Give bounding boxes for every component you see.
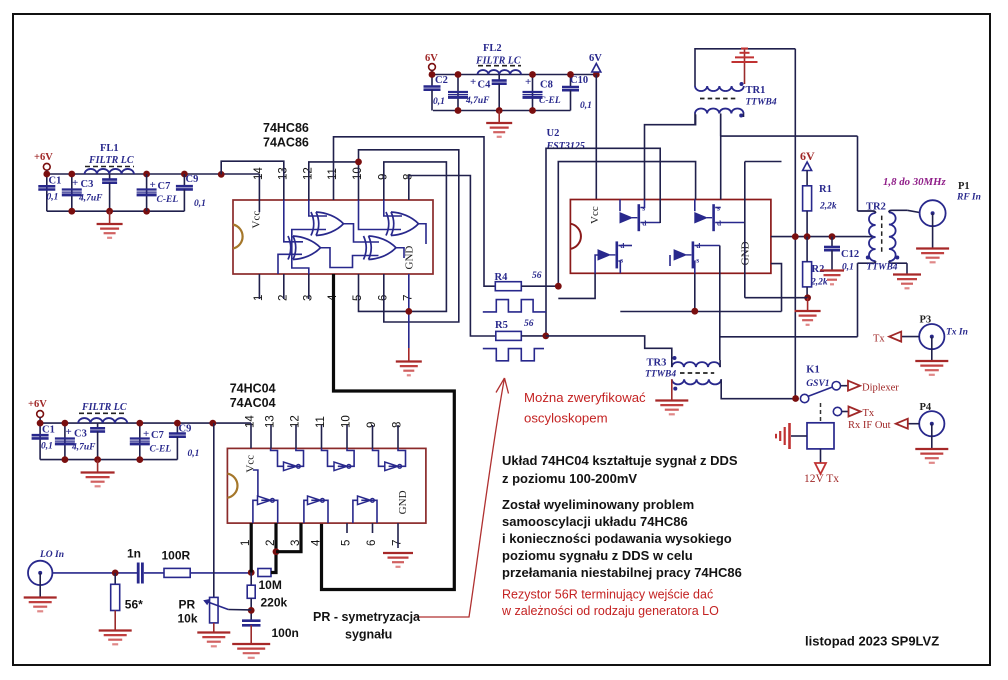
wire net R5 to TR3 primary: [546, 336, 672, 360]
junction pin1 node: [248, 569, 255, 576]
capacitor C3 (lower): [64, 423, 66, 460]
wire net U2B d through to R2: [744, 162, 746, 298]
svg-text:Vcc: Vcc: [251, 211, 263, 229]
junction rail dots: [792, 233, 799, 240]
wire 10M right and pin2 riser thick: [271, 523, 276, 572]
relay K1 coil box: [807, 423, 834, 449]
inverter U3D: [258, 496, 275, 505]
IC U1 74HC86 body: [233, 200, 433, 274]
wire 1n to 100R: [144, 572, 164, 574]
U2B wires: [694, 200, 696, 212]
wire TR3 secondary right to K1: [721, 379, 795, 398]
U2D wires: [669, 255, 671, 266]
wire lower filter bottom rail: [40, 459, 177, 461]
svg-text:P1: P1: [958, 181, 970, 192]
IC U3 74HC04 body: [227, 448, 426, 523]
svg-text:C1: C1: [42, 425, 55, 436]
svg-text:C4: C4: [478, 80, 492, 91]
capacitor FL2 center tap: [498, 75, 500, 81]
capacitor C7: [137, 190, 157, 195]
svg-text:GSV1: GSV1: [806, 379, 829, 389]
svg-text:0,1: 0,1: [194, 199, 206, 209]
capacitor C8: [532, 75, 534, 111]
wire coil to 12V: [820, 449, 822, 463]
junction U2D s: [694, 273, 696, 311]
wire P4 to ground: [931, 424, 933, 449]
transformer TR2 secondary: [889, 212, 896, 261]
wire wiper to 220k node: [228, 609, 251, 611]
transformer TR1 core dashes: [700, 98, 738, 100]
svg-text:RF In: RF In: [956, 193, 981, 203]
transformer TR3 secondary: [672, 379, 721, 384]
svg-text:74AC04: 74AC04: [230, 396, 276, 410]
svg-text:4,7uF: 4,7uF: [465, 96, 490, 106]
svg-text:FILTR LC: FILTR LC: [81, 402, 127, 413]
ground LO In: [24, 598, 57, 612]
wire IC U3 pin7 to ground: [397, 523, 399, 548]
svg-text:i konieczności podawania wysok: i konieczności podawania wysokiego: [502, 531, 732, 546]
svg-text:TTWB4: TTWB4: [866, 263, 897, 273]
svg-text:C-EL: C-EL: [157, 195, 179, 205]
transformer TR1 primary: [695, 86, 744, 91]
junction K1 common: [792, 395, 799, 402]
wire thick black net pin4 U1 - pin4 U2: [322, 274, 455, 590]
wire pin2 to pin3 thick: [276, 523, 301, 552]
svg-text:100R: 100R: [162, 549, 191, 563]
wire TR2 secondary bottom to ground: [906, 263, 908, 274]
capacitor C9 (lower): [176, 423, 178, 433]
wire pin7 to ground: [408, 274, 410, 348]
svg-text:Rx IF Out: Rx IF Out: [848, 420, 891, 431]
wire net U2D to TR3: [719, 246, 721, 361]
svg-text:listopad 2023 SP9LVZ: listopad 2023 SP9LVZ: [805, 634, 939, 649]
waveform symbol at R4: [483, 300, 546, 312]
inverter U3E: [308, 496, 325, 505]
capacitor C2: [431, 75, 433, 87]
wire coil to chassis ground: [791, 435, 807, 437]
svg-text:R5: R5: [495, 320, 508, 331]
svg-text:6: 6: [366, 540, 378, 546]
svg-text:C8: C8: [540, 80, 553, 91]
transformer TR2 core dashes: [881, 216, 883, 252]
relay K1 arm: [808, 387, 832, 396]
ground FL2: [486, 111, 512, 137]
svg-text:C3: C3: [81, 179, 94, 190]
wire P4 lead: [908, 423, 919, 425]
bus switch U2A (upper-left): [620, 204, 639, 231]
ground C12: [820, 271, 844, 285]
capacitor C3: [62, 190, 82, 195]
wire TR2 primary top from TR1: [857, 136, 859, 211]
ground PR: [197, 633, 230, 647]
wire P1 to ground: [932, 213, 934, 248]
wire TR1 secondary right to TR2: [721, 135, 858, 137]
capacitor C1 (lower): [39, 423, 41, 460]
wire lower filter top rail: [40, 422, 251, 424]
relay K1 NO contact: [833, 407, 841, 415]
svg-text:Tx In: Tx In: [946, 328, 968, 338]
junction pin10: [355, 159, 362, 166]
svg-text:Diplexer: Diplexer: [862, 383, 899, 394]
svg-text:C1: C1: [49, 176, 62, 187]
svg-text:C-EL: C-EL: [539, 96, 561, 106]
IC U3 pin5 stub: [346, 523, 348, 533]
wire net R5 junction riser: [546, 148, 660, 336]
junction pin2-pin3: [273, 548, 280, 555]
capacitor C1: [38, 186, 55, 189]
wire net pin8 to R5: [409, 176, 496, 337]
svg-text:GND: GND: [740, 241, 752, 265]
svg-text:FL1: FL1: [100, 143, 119, 154]
svg-text:10M: 10M: [259, 578, 282, 592]
svg-text:74HC86: 74HC86: [263, 121, 309, 135]
svg-text:4,7uF: 4,7uF: [78, 194, 103, 204]
wire TR1 primary left riser to K1: [794, 49, 796, 399]
svg-text:TTWB4: TTWB4: [746, 98, 777, 108]
IC U2 body: [570, 200, 771, 274]
capacitor C12: [831, 237, 833, 247]
svg-text:C-EL: C-EL: [150, 445, 172, 455]
resistor 220k: [250, 573, 252, 586]
resistor 10M: [258, 569, 271, 577]
wire TR1 secondary right down: [743, 114, 745, 118]
arrow 12V Tx: [815, 463, 826, 474]
relay K1 common contact: [800, 394, 808, 402]
svg-text:U2: U2: [547, 128, 560, 139]
svg-text:Można zweryfikować: Można zweryfikować: [524, 390, 646, 405]
junction dots FL1: [43, 171, 50, 178]
svg-text:0,1: 0,1: [433, 97, 445, 107]
ground 100n: [232, 644, 270, 658]
svg-text:+: +: [72, 177, 78, 189]
wire FL2 bottom rail: [433, 110, 571, 112]
svg-text:C7: C7: [158, 181, 171, 192]
IC U3 top pin stubs: [250, 423, 252, 448]
wire 100n to ground: [250, 625, 252, 643]
svg-text:przełamania niestabilnej pracy: przełamania niestabilnej pracy 74HC86: [502, 565, 742, 580]
ground IC1 pin7: [396, 348, 422, 375]
capacitor C7 (lower): [139, 423, 141, 460]
wire 220k to 100n: [250, 598, 252, 620]
wire R1 to rail: [806, 211, 808, 237]
relay K1 NC contact: [832, 382, 840, 390]
svg-text:+: +: [470, 76, 476, 88]
svg-text:+6V: +6V: [28, 399, 47, 410]
capacitor center tap (lower): [97, 423, 99, 428]
svg-text:Rezystor 56R terminujący wejśc: Rezystor 56R terminujący wejście dać: [502, 588, 713, 602]
svg-text:C7: C7: [151, 430, 164, 441]
transformer TR3 core dashes: [680, 372, 714, 374]
wire IC U3 pin1 thick: [250, 523, 253, 572]
svg-text:C3: C3: [74, 429, 87, 440]
resistor 56*: [114, 573, 116, 584]
svg-text:56*: 56*: [125, 598, 143, 612]
transformer TR1 secondary: [695, 109, 744, 114]
capacitor 100n: [242, 621, 261, 626]
ground P3: [915, 361, 948, 375]
junction R4 out: [555, 283, 562, 290]
wire TR2 bottom to TR3 net: [720, 336, 857, 338]
wire pin3 stub: [308, 274, 310, 299]
svg-text:R1: R1: [819, 184, 832, 195]
bus switch U2B (upper-right): [695, 204, 714, 231]
resistor R2: [803, 262, 812, 287]
wire C7 leg: [146, 174, 148, 211]
IC U3 pin6 stub: [372, 523, 374, 533]
IC U3 internal wires: [271, 448, 284, 466]
svg-text:1n: 1n: [127, 547, 141, 561]
svg-text:oscyloskopem: oscyloskopem: [524, 411, 608, 426]
wire 100R to pin1 node: [190, 572, 251, 574]
ground TR1 top (inverted): [744, 49, 746, 84]
wire net pin9-pin7-pin5: [359, 162, 447, 312]
junction pin7: [405, 308, 412, 315]
capacitor C4: [457, 75, 459, 111]
red annotation arrow (PR symetryzacja): [415, 378, 505, 617]
wire TR2 secondary top to P1: [907, 210, 919, 212]
wire C1 left leg: [46, 174, 48, 211]
wire P3 to ground: [931, 337, 933, 361]
svg-text:220k: 220k: [261, 596, 288, 610]
bus switch U2D (lower-right): [674, 241, 693, 268]
svg-text:+: +: [150, 179, 156, 191]
inverter U3B: [334, 462, 351, 471]
svg-text:FILTR LC: FILTR LC: [88, 155, 134, 166]
U2A wires: [619, 200, 621, 212]
svg-text:+: +: [143, 428, 149, 440]
svg-text:Tx: Tx: [863, 408, 875, 419]
resistor R1: [803, 186, 812, 211]
ground P4: [915, 449, 948, 463]
wire R2 top: [806, 237, 808, 262]
ground P1: [916, 249, 949, 263]
svg-text:PR: PR: [179, 598, 196, 612]
wire LO line: [52, 572, 137, 574]
wire +6V to rail: [46, 170, 48, 174]
wire bias rail: [771, 236, 866, 238]
wire C3 leg: [71, 174, 73, 211]
svg-text:10k: 10k: [178, 612, 198, 626]
svg-text:PR - symetryzacja: PR - symetryzacja: [313, 610, 421, 624]
arrow Tx (K1): [849, 407, 861, 417]
wire R5 right: [521, 335, 546, 337]
IC U3 notch: [227, 474, 237, 498]
svg-text:6V: 6V: [589, 53, 602, 64]
waveform symbol at R5: [483, 349, 544, 361]
svg-text:56: 56: [524, 319, 534, 329]
svg-text:w zależności od rodzaju genera: w zależności od rodzaju generatora LO: [501, 604, 719, 618]
svg-text:sygnału: sygnału: [345, 628, 392, 642]
wire to Tx arrow: [842, 411, 849, 413]
arrow Diplexer: [848, 381, 860, 391]
wire R2 bottom: [806, 287, 808, 298]
chassis ground K1 (sideways): [776, 423, 790, 449]
wire TR2 center tap: [866, 236, 872, 238]
wire P3 lead: [901, 336, 919, 338]
potentiometer PR wiper: [207, 602, 229, 610]
wire PR to ground: [213, 623, 215, 632]
inverter U3F: [358, 496, 375, 505]
svg-text:1,8 do 30MHz: 1,8 do 30MHz: [883, 176, 946, 188]
svg-text:K1: K1: [806, 365, 819, 376]
wire FL2 top rail: [432, 74, 596, 76]
arrow Tx (P3): [889, 332, 901, 342]
ground R2: [795, 298, 821, 325]
wire pin2 stub: [283, 274, 285, 299]
svg-text:s: s: [696, 256, 699, 265]
ground lower filter: [81, 460, 115, 487]
svg-text:2,2k: 2,2k: [819, 202, 837, 212]
inverter U3C: [385, 462, 402, 471]
capacitor C10: [570, 75, 572, 87]
wire net pin11 to R4: [334, 137, 496, 286]
capacitor FL1 center tap: [109, 174, 111, 179]
wire 6V to R1: [806, 171, 808, 186]
wire pin1 stub: [258, 274, 260, 299]
svg-text:+: +: [66, 426, 72, 438]
svg-text:4,7uF: 4,7uF: [71, 443, 96, 453]
svg-text:Został wyeliminowany problem: Został wyeliminowany problem: [502, 497, 694, 512]
wire net U2A s to TR1 secondary: [645, 114, 696, 199]
junction wiper node: [248, 607, 255, 614]
XOR gate U1D: [364, 236, 397, 260]
svg-text:FST3125: FST3125: [546, 141, 585, 152]
ground FL1: [97, 211, 123, 238]
bus switch U2C (lower-left): [598, 241, 617, 268]
svg-text:+6V: +6V: [34, 152, 53, 163]
svg-text:4: 4: [311, 539, 323, 546]
wire net U2 bottom bus: [620, 311, 781, 313]
svg-text:0,1: 0,1: [188, 449, 200, 459]
XOR gate U1B: [386, 212, 419, 236]
svg-text:6V: 6V: [800, 149, 815, 163]
svg-text:GND: GND: [404, 246, 416, 270]
wire net pin12-pin10-pin6: [309, 162, 359, 200]
wire R4 right: [521, 285, 558, 287]
svg-text:z poziomu 100-200mV: z poziomu 100-200mV: [502, 471, 637, 486]
junction R2 bottom: [804, 294, 811, 301]
relay K1 actuator dashed link: [820, 403, 822, 422]
wire net pin14 Vcc: [258, 174, 260, 200]
svg-text:2,2k: 2,2k: [810, 278, 828, 288]
junction 56R: [112, 570, 119, 577]
ground IC U3 pin7: [383, 553, 413, 567]
wire TR1 primary left loop: [695, 49, 795, 86]
svg-text:74HC04: 74HC04: [230, 382, 276, 396]
ground 56*: [99, 631, 132, 645]
svg-text:C2: C2: [435, 75, 448, 86]
wire to Diplexer arrow: [841, 385, 849, 387]
svg-text:TR1: TR1: [746, 85, 766, 96]
arrow Rx IF Out: [896, 419, 908, 429]
svg-text:5: 5: [341, 540, 353, 546]
svg-text:Układ 74HC04 kształtuje sygnał: Układ 74HC04 kształtuje sygnał z DDS: [502, 453, 738, 468]
wire FL1 bottom rail: [47, 210, 185, 212]
svg-text:C9: C9: [186, 174, 199, 185]
svg-text:74AC86: 74AC86: [263, 136, 309, 150]
svg-text:Tx: Tx: [873, 334, 885, 345]
svg-text:FILTR LC: FILTR LC: [475, 56, 521, 67]
wire TR3 primary right riser: [719, 360, 721, 367]
svg-text:56: 56: [532, 271, 542, 281]
IC U2 notch: [570, 224, 581, 249]
inverter U3A: [284, 462, 301, 471]
svg-text:0,1: 0,1: [47, 193, 59, 203]
svg-text:LO In: LO In: [39, 550, 64, 560]
XOR gate U1A: [311, 212, 344, 236]
transformer TR2 primary: [869, 213, 876, 261]
svg-text:12V Tx: 12V Tx: [804, 473, 839, 485]
transformer TR3 primary: [672, 362, 720, 367]
svg-text:C9: C9: [179, 424, 192, 435]
capacitor C9: [183, 174, 185, 186]
wire TR1 secondary left to U2: [694, 114, 696, 125]
svg-text:TTWB4: TTWB4: [645, 370, 676, 380]
wire net U2 GND right edge: [771, 264, 782, 312]
svg-text:0,1: 0,1: [580, 101, 592, 111]
IC U1 notch: [233, 225, 243, 249]
svg-text:samooscylacji układu 74HC86: samooscylacji układu 74HC86: [502, 514, 688, 529]
svg-text:TR3: TR3: [647, 358, 667, 369]
ground TR2 secondary: [893, 275, 921, 289]
ground TR3: [655, 401, 688, 415]
wire net R4 junction riser: [558, 162, 695, 287]
svg-text:+: +: [525, 76, 531, 88]
wire net U2B s to TR1 secondary right: [720, 114, 722, 199]
U2C wires: [595, 255, 598, 273]
wire net U2B d to R2: [745, 297, 808, 299]
wire TR2 primary bottom: [857, 263, 859, 337]
junction dots FL2: [429, 71, 436, 78]
svg-text:100n: 100n: [272, 626, 299, 640]
svg-text:6V: 6V: [425, 53, 438, 64]
svg-text:GND: GND: [397, 490, 409, 514]
wire 56 to ground: [114, 611, 116, 631]
svg-text:FL2: FL2: [483, 43, 502, 54]
svg-text:C12: C12: [841, 249, 859, 260]
wire U2C control feed: [558, 273, 595, 298]
wire net pin13: [221, 161, 284, 200]
svg-text:poziomu sygnału z DDS w celu: poziomu sygnału z DDS w celu: [502, 548, 693, 563]
junction R5 out: [542, 333, 549, 340]
wire TR3 secondary left to ground: [671, 379, 673, 400]
junction dots lower filter: [37, 420, 44, 427]
wire FL1 top rail: [47, 173, 260, 175]
svg-text:Vcc: Vcc: [589, 206, 601, 224]
svg-text:0,1: 0,1: [41, 442, 53, 452]
IC U1 internal wires: [284, 200, 303, 242]
wire TR3 primary left: [671, 360, 673, 367]
wire 6V to U2 Vcc: [595, 75, 597, 200]
wire LO circle stem to ground: [39, 573, 41, 597]
XOR gate U1C: [288, 236, 321, 260]
